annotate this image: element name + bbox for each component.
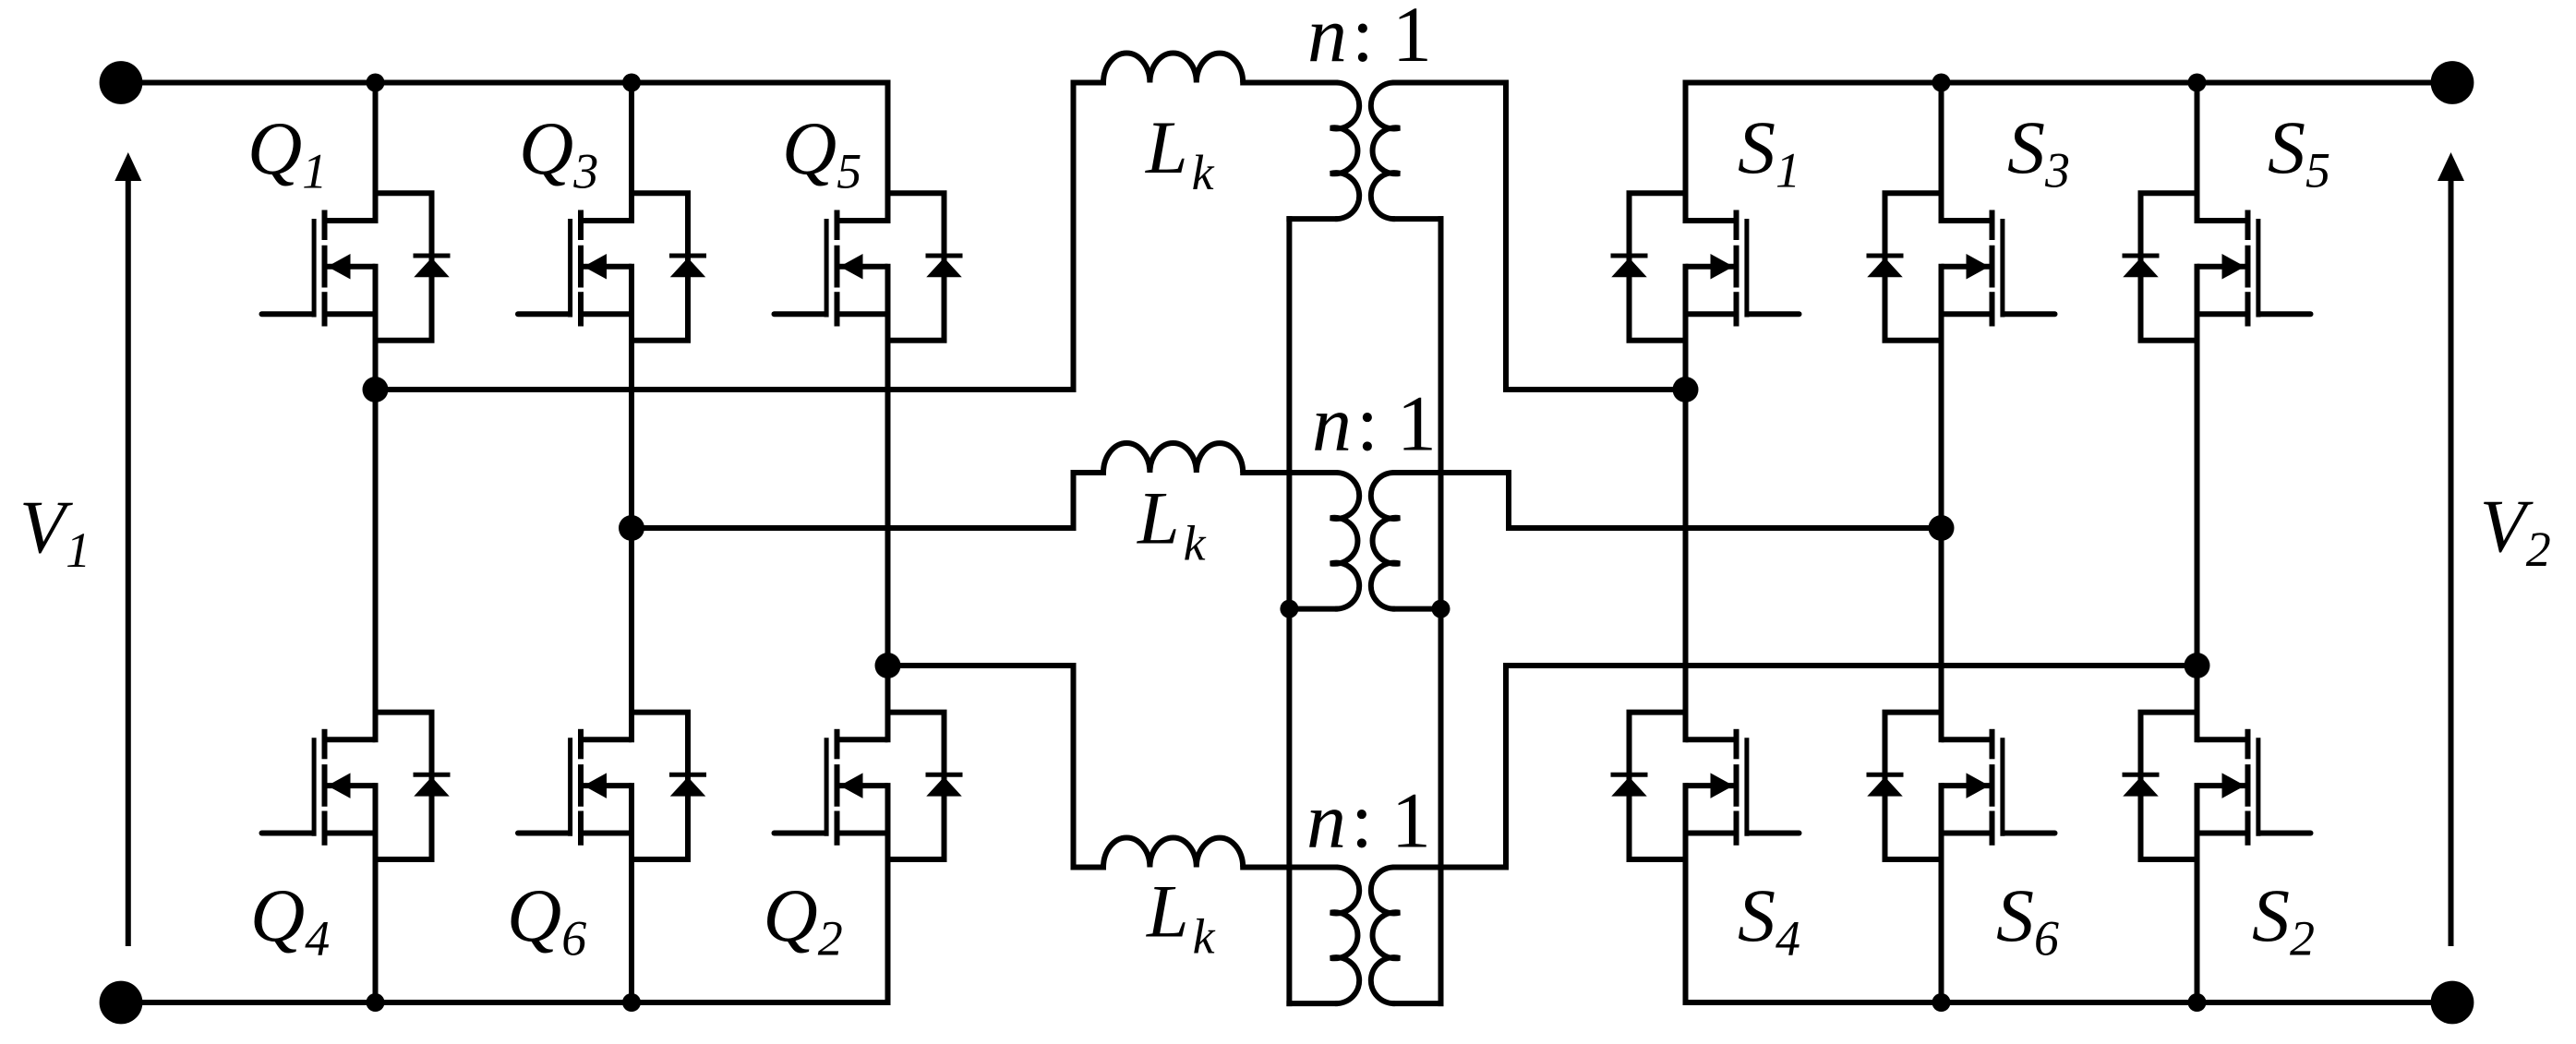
transformer T1 secondary winding (phase A) xyxy=(1371,82,1400,219)
transistor Q3 xyxy=(518,83,706,529)
wire top rail of V2 bridge xyxy=(1686,80,2453,86)
node bottom rail / S2 source xyxy=(2188,993,2207,1012)
wire bottom rail of V2 bridge xyxy=(1686,1000,2453,1005)
node top rail / Q1 drain xyxy=(367,74,385,92)
node top rail / Q3 drain xyxy=(622,74,641,92)
node phase C left xyxy=(875,653,901,678)
node phase B left xyxy=(619,515,644,541)
inductor Lk (phase A) xyxy=(1103,53,1243,82)
node primary star junction xyxy=(1280,600,1298,618)
inductor Lk (phase B) xyxy=(1103,443,1243,473)
transistor S2 xyxy=(2123,666,2311,1002)
wire phase-C from Q5/Q2 midpoint to Lk xyxy=(888,663,1074,668)
arrow V2 polarity xyxy=(2449,178,2454,946)
wire secondary phase-B to S3/S6 midpoint xyxy=(1395,470,1509,475)
transistor S3 xyxy=(1867,83,2055,529)
transistor Q1 xyxy=(262,83,451,390)
wire phase-A from Q1/Q4 midpoint to Lk xyxy=(376,387,1074,392)
node secondary star junction xyxy=(1432,600,1451,618)
node top rail / S5 drain xyxy=(2188,74,2207,92)
transistor S1 xyxy=(1611,83,1800,390)
transformer T2 primary winding (phase B) xyxy=(1330,473,1359,609)
arrow V1 polarity xyxy=(126,178,131,946)
wire secondary phase-A to S1/S4 midpoint xyxy=(1395,80,1506,86)
terminal V2 negative xyxy=(2431,981,2474,1025)
transformer T2 secondary winding (phase B) xyxy=(1371,473,1400,609)
terminal V2 positive xyxy=(2431,61,2474,104)
wire secondary star point bus xyxy=(1395,216,1441,222)
transistor Q5 xyxy=(775,83,963,666)
node bottom rail / Q4 source xyxy=(367,993,385,1012)
transistor Q6 xyxy=(518,528,706,1002)
transistor Q2 xyxy=(775,666,963,1002)
transistor S4 xyxy=(1611,390,1800,1002)
wire top rail of V1 bridge xyxy=(121,80,888,86)
node phase A left xyxy=(363,377,389,402)
wire phase-B from Q3/Q6 midpoint to Lk xyxy=(632,525,1074,531)
wire secondary phase-C to S5/S2 midpoint xyxy=(1395,865,1506,870)
svg-text:n:1: n:1 xyxy=(1307,0,1432,78)
inductor Lk (phase C) xyxy=(1103,837,1243,867)
transistor Q4 xyxy=(262,390,451,1002)
node phase A right xyxy=(1673,377,1699,402)
transistor S6 xyxy=(1867,528,2055,1002)
transformer T3 primary winding (phase C) xyxy=(1330,867,1359,1003)
node phase B right xyxy=(1929,515,1955,541)
wire primary star point bus xyxy=(1289,216,1335,222)
node bottom rail / S6 source xyxy=(1932,993,1951,1012)
svg-text:n:1: n:1 xyxy=(1312,379,1437,468)
node top rail / S3 drain xyxy=(1932,74,1951,92)
terminal V1 negative xyxy=(100,981,143,1025)
svg-text:n:1: n:1 xyxy=(1306,776,1431,865)
node phase C right xyxy=(2185,653,2210,678)
wire bottom rail of V1 bridge xyxy=(121,1000,888,1005)
transistor S5 xyxy=(2123,83,2311,666)
node bottom rail / Q6 source xyxy=(622,993,641,1012)
terminal V1 positive xyxy=(100,61,143,104)
transformer T1 primary winding (phase A) xyxy=(1330,82,1359,219)
transformer T3 secondary winding (phase C) xyxy=(1371,867,1400,1003)
